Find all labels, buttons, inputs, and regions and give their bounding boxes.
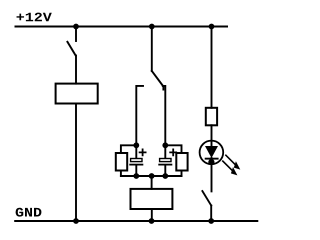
- switch S2 blade: [152, 71, 164, 90]
- capacitor C2 bottom electrode bar: [158, 164, 172, 166]
- wire node D to capacitor C1: [135, 145, 137, 158]
- wire from +12V to SPDT switch S2 pole: [151, 27, 153, 72]
- switch S2 left throw contact: [136, 86, 143, 145]
- LED D1 cathode bar: [205, 158, 219, 160]
- wire from R2 to bottom node: [165, 171, 181, 177]
- switch S3 blade (open SPST): [202, 191, 211, 205]
- relay coil K1 box: [56, 84, 98, 104]
- wire from +12V to switch S1: [75, 27, 77, 42]
- capacitor C1 top electrode box: [131, 159, 142, 162]
- capacitor C1 bottom electrode bar: [129, 164, 143, 166]
- wire R3 to LED D1: [211, 125, 213, 146]
- node C junction dot on +12V rail right: [209, 24, 215, 30]
- capacitor C2 top electrode box: [160, 159, 171, 162]
- LED D1 cathode dot: [208, 159, 214, 165]
- wire from R1 to bottom node: [121, 171, 136, 177]
- wire LED D1 to switch S3: [211, 158, 213, 191]
- wire S3 to GND rail: [210, 206, 212, 222]
- node E junction dot top of right RC pair: [162, 142, 168, 148]
- switch S2 right throw contact: [163, 86, 166, 145]
- wire from S1 to relay coil K1: [75, 56, 77, 84]
- junction dot middle branch on GND rail: [149, 218, 155, 224]
- junction dot left branch on GND rail: [73, 218, 79, 224]
- resistor R2 box: [176, 153, 187, 171]
- junction dot right branch on GND rail: [208, 218, 214, 224]
- +12V rail label: [17, 13, 52, 22]
- relay coil K2 box: [131, 189, 173, 209]
- LED D1 light arrow 2: [223, 161, 238, 175]
- LED D1 triangle anode: [205, 146, 218, 158]
- junction dot bottom of C2: [162, 173, 168, 179]
- wire from node D to resistor R1: [121, 145, 136, 153]
- +12V power rail wire: [16, 26, 228, 28]
- node F center junction dot: [149, 173, 155, 179]
- GND rail label: [16, 208, 42, 217]
- wire from node E to resistor R2: [165, 145, 181, 153]
- wire C1 to bottom node: [135, 165, 137, 176]
- capacitor C2 polarity plus sign: [170, 149, 176, 155]
- node B junction dot on +12V rail middle: [149, 24, 155, 30]
- resistor R1 box: [116, 153, 127, 171]
- LED D1 circle: [200, 141, 224, 165]
- LED D1 light arrow 1: [226, 155, 240, 169]
- capacitor C1 polarity plus sign: [140, 149, 146, 155]
- node D junction dot top of left RC pair: [133, 142, 139, 148]
- switch S1 blade (open SPST): [67, 42, 75, 56]
- wire K2 to GND rail: [151, 209, 153, 221]
- wire node F to coil K2: [151, 176, 153, 189]
- node A junction dot on +12V rail left: [73, 24, 79, 30]
- resistor R3 box: [206, 108, 217, 126]
- GND power rail wire: [15, 220, 257, 222]
- wire from K1 to GND rail: [75, 104, 77, 222]
- bottom common wire of RC pairs: [121, 175, 182, 177]
- wire from +12V to resistor R3: [211, 27, 213, 108]
- wire node E to capacitor C2: [164, 145, 166, 158]
- wire C2 to bottom node: [164, 165, 166, 176]
- junction dot bottom of C1: [133, 173, 139, 179]
